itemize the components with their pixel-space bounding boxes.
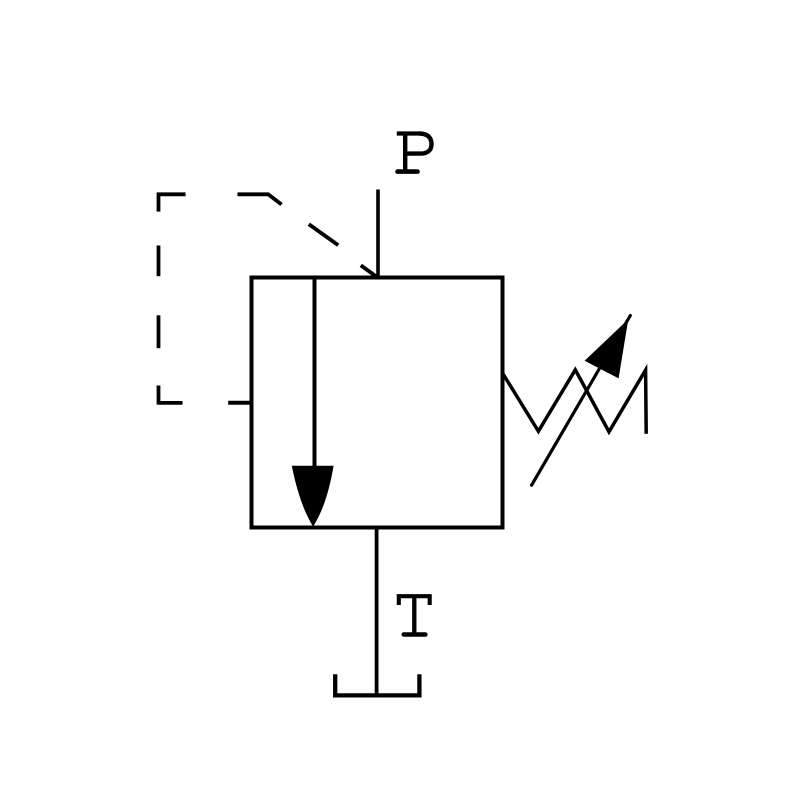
wire: T return line from bottom of valve [375, 528, 379, 697]
pilot line: bottom corner dash horizontal part [159, 401, 183, 405]
valve body (square envelope) [252, 278, 503, 528]
pilot line: diagonal dash ending at P junction [361, 265, 378, 277]
pilot line: solid stub into envelope left side [228, 401, 251, 405]
flow-path arrow inside valve (normally-closed poppet path) [313, 278, 317, 471]
wire: P supply line into top of valve [376, 190, 380, 278]
pilot line: left vertical dash [157, 246, 161, 277]
tank symbol [335, 674, 419, 695]
pilot line: left vertical dash [157, 315, 161, 348]
port T label [399, 596, 430, 634]
adjustment arrow shaft (variable spring setting) [532, 316, 631, 486]
arrowhead of flow path [292, 466, 334, 527]
pilot line: top horizontal dash turning diagonal [238, 194, 282, 204]
pilot line (dashed) : bottom corner dash [157, 386, 161, 405]
pilot line: top corner dash [159, 194, 186, 211]
adjustment arrowhead [585, 319, 629, 378]
pilot line: diagonal dash [309, 224, 338, 245]
port P label [397, 134, 432, 172]
spring (pressure setting spring on right of envelope) [503, 370, 646, 434]
